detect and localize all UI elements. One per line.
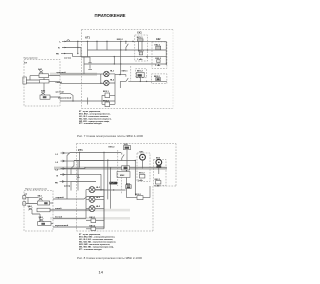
gray scan band (sch2 L3 row) [54, 167, 167, 170]
svg-text:HL2: HL2 [110, 80, 115, 82]
svg-text:HL3: HL3 [96, 206, 101, 208]
svg-text:коричневый: коричневый [55, 224, 69, 227]
wire right riser [165, 41, 167, 64]
burner EK1.1 (ring) [140, 154, 146, 160]
dashed partition x=130.8 (sch1) [130, 66, 132, 82]
gray scan band (sch2 lower) [50, 209, 130, 212]
wire riser x=107 [106, 41, 108, 50]
lamp wiring [101, 74, 115, 104]
panel internal wires [26, 76, 60, 97]
wire PE drop [72, 54, 74, 57]
svg-text:КМ1.1: КМ1.1 [122, 71, 129, 73]
svg-text:1 кВт: 1 кВт [138, 180, 143, 182]
riser x=77.8 [77, 41, 79, 53]
wire bus rows sch2 [70, 153, 167, 191]
lamp HL3 (sch2) [89, 206, 95, 212]
risers into panel region [67, 175, 86, 219]
svg-text:КТ1: КТ1 [85, 36, 90, 40]
svg-text:КТ1 - клеммная колодка: КТ1 - клеммная колодка [79, 123, 102, 125]
wire tier bus y=81.4 [128, 80, 167, 82]
connector on panel edge [23, 77, 26, 84]
wire riser x=135.3 [134, 161, 136, 196]
svg-text:SA2: SA2 [41, 89, 46, 92]
svg-text:ПРИЛОЖЕНИЕ: ПРИЛОЖЕНИЕ [95, 13, 126, 18]
lamp HL1 (sch2) [89, 187, 95, 193]
gray scan band (sch1 wire highlight) [50, 73, 97, 76]
lamp HL2 [104, 80, 109, 85]
svg-text:1 кВт: 1 кВт [155, 65, 160, 67]
svg-text:L: L [60, 41, 62, 43]
wire bus E y=64.5 [84, 63, 166, 65]
wire N riser maze [81, 41, 90, 57]
svg-text:SA1: SA1 [38, 68, 43, 71]
svg-text:(сеть): (сеть) [65, 58, 71, 60]
contactor KM2 coil box [117, 172, 130, 178]
stub x=87.7 [87, 98, 89, 105]
wire riser x=120.7 [120, 41, 122, 74]
svg-text:Рис. 7 Схема электрическая пли: Рис. 7 Схема электрическая плиты ЭВЖ 4-1… [77, 134, 144, 138]
svg-text:PE: PE [56, 54, 59, 56]
svg-text:КТ1 - клеммная колодка: КТ1 - клеммная колодка [79, 249, 102, 251]
svg-text:HL1: HL1 [96, 187, 101, 189]
lamp bus wires sch2 [86, 190, 104, 228]
wire bus C y=56 [83, 57, 85, 64]
svg-text:Пульт управления: Пульт управления [25, 188, 47, 190]
svg-text:N: N [58, 48, 60, 50]
svg-text:PE: PE [55, 182, 58, 184]
dashed partition x=121.4 [120, 177, 122, 194]
switch SA1 second deck [40, 80, 50, 83]
enclosure (stove body, dashed) [82, 30, 174, 109]
panel 2 internal wires [26, 197, 53, 223]
svg-text:коричневый: коричневый [58, 96, 72, 99]
svg-text:КТ: КТ [24, 63, 27, 65]
svg-text:N: N [57, 175, 59, 177]
svg-text:КМ1.2: КМ1.2 [109, 147, 116, 149]
oven bus y=190 [95, 189, 126, 191]
svg-text:Рис. 8 Схема электрическая пли: Рис. 8 Схема электрическая плиты ЭВЖ 2-1… [77, 256, 143, 260]
svg-text:14: 14 [99, 270, 104, 275]
thermostat legs to tier bus [139, 77, 141, 81]
contactor KM2 blob [122, 166, 130, 170]
junction dots bus A [77, 41, 79, 43]
link bus C to bus E [113, 57, 115, 64]
junction dots bus D [147, 49, 149, 51]
wire riser x=97 [96, 41, 98, 50]
lamp HL2 (sch2) [89, 196, 95, 202]
svg-text:КМ1.2: КМ1.2 [117, 39, 124, 41]
svg-text:L2: L2 [56, 162, 59, 164]
svg-text:1 кВт: 1 кВт [155, 185, 160, 187]
enclosure 2 (stove body, dashed) [77, 144, 177, 232]
svg-text:SA1: SA1 [38, 195, 43, 198]
svg-text:ЕК1: ЕК1 [137, 33, 142, 35]
wire crossover jog [67, 40, 70, 42]
burner EK2.1 (ring) [156, 159, 162, 165]
thermal limiter symbol [88, 57, 92, 69]
feeder crossover wires [67, 153, 80, 182]
contact symbol sch2 [122, 153, 124, 161]
junction dots sch2 [103, 152, 104, 153]
riser pe-lamp [83, 64, 85, 74]
svg-text:КТ1: КТ1 [78, 148, 83, 152]
oven label KM2.1 (dark smear) [109, 182, 117, 185]
svg-text:1 кВт: 1 кВт [137, 59, 142, 61]
svg-text:HL1: HL1 [110, 71, 115, 73]
wire bus D y=50 [88, 49, 167, 51]
svg-text:HL2: HL2 [96, 197, 101, 199]
svg-text:L1: L1 [56, 154, 59, 156]
svg-text:ЕК2: ЕК2 [156, 39, 161, 41]
bus risers sch2 [104, 153, 111, 229]
dashed partition x=117.8 (sch2) [117, 150, 119, 186]
connector on panel 2 edge [23, 196, 26, 199]
svg-text:черный: черный [56, 196, 65, 199]
svg-text:Пульт управления: Пульт управления [24, 58, 38, 60]
lamp HL1 [104, 71, 109, 76]
